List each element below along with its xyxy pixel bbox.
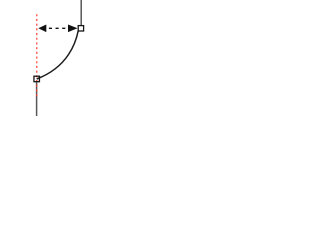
node arrowhead left — [38, 25, 46, 33]
wire vertical gray segment top — [80, 0, 82, 26]
node arrowhead right — [68, 25, 78, 33]
node handle square bottom — [34, 76, 40, 82]
node arrow dashed horizontal line — [49, 27, 66, 29]
wire bezier curve segment — [37, 30, 79, 79]
node handle square top — [78, 26, 83, 31]
wire vertical gray segment bottom — [36, 81, 38, 116]
node guide red dashed vertical line — [36, 14, 38, 96]
